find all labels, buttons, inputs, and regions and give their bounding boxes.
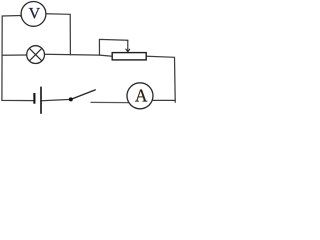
svg-text:A: A [135,86,148,106]
svg-text:V: V [29,6,41,23]
